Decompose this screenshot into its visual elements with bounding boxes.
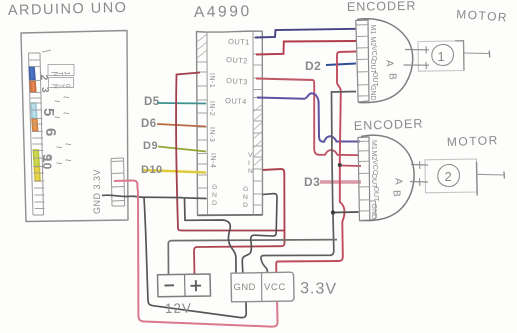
battery minus symbol — [165, 284, 175, 286]
svg-text:~: ~ — [56, 142, 62, 154]
svg-text:A: A — [384, 60, 395, 67]
svg-text:MOTOR: MOTOR — [447, 133, 499, 149]
INT-1 boxed label at pin 2 — [48, 65, 74, 76]
svg-text:1: 1 — [438, 49, 445, 64]
pin 2 highlight (blue) — [29, 67, 35, 80]
encoder 2 pin strip — [358, 137, 370, 221]
encoder1 pin label GND — [369, 85, 376, 101]
svg-text:OUT3: OUT3 — [226, 76, 248, 86]
wire battery + to VIN (red) — [194, 243, 285, 275]
svg-text:IN-3: IN-3 — [208, 127, 215, 142]
svg-text:N: N — [248, 168, 253, 175]
encoder1 pin label OUT B — [371, 72, 378, 88]
motor1 shaft wire — [464, 52, 490, 55]
junction node at GND tap — [331, 210, 335, 214]
pin label VIN (stacked) — [248, 152, 253, 175]
svg-text:D5: D5 — [144, 96, 160, 108]
svg-text:N: N — [212, 192, 217, 199]
motor driver U2 A4990 outline — [197, 31, 263, 215]
svg-text:M1: M1 — [370, 140, 377, 150]
svg-text:D: D — [212, 200, 217, 207]
A4990 left pin ticks — [197, 62, 208, 199]
pin label GND left (stacked) — [212, 184, 217, 207]
A4990 right pin ticks — [253, 38, 263, 206]
svg-text:M1: M1 — [369, 25, 376, 35]
svg-text:IN-1: IN-1 — [208, 73, 215, 88]
svg-text:VCC: VCC — [264, 282, 286, 293]
svg-text:OUT: OUT — [372, 187, 379, 203]
pin 5 highlight (light blue) — [31, 103, 37, 118]
svg-text:2: 2 — [445, 169, 452, 184]
pin label IN-3 (rotated) — [208, 127, 215, 142]
svg-text:D2: D2 — [305, 59, 321, 73]
encoder1 pin label OUT A — [369, 59, 376, 75]
wire OUT2 to encoder1 M2 (red) — [256, 41, 356, 55]
encoder2 pin label OUT B — [372, 187, 379, 203]
svg-text:GND: GND — [234, 282, 256, 293]
wire GND bus (grey): encoder1 GND down past encoder2 to connector — [332, 92, 357, 211]
wire chip GND-left branch down to S-curve into GND connector — [185, 198, 237, 273]
svg-text:IN-4: IN-4 — [209, 153, 216, 168]
GND/VCC connector box — [231, 272, 294, 302]
svg-text:D3: D3 — [304, 175, 320, 189]
svg-text:G: G — [243, 186, 248, 193]
A4990 right pin strip inner line — [252, 32, 254, 216]
encoder2 pin label OUT A — [370, 174, 377, 190]
wire chip GND-right pin down-left S-curve into GND connector (black) — [242, 194, 277, 273]
wire OUT3 to encoder2 M2 (red/pink) with hop — [256, 79, 359, 156]
wire battery - up and right to GND bus (grey) — [168, 240, 337, 275]
encoder 1 pin strip — [356, 20, 369, 102]
svg-text:OUT1: OUT1 — [228, 37, 250, 47]
svg-text:B: B — [391, 190, 402, 197]
wire Arduino 3.3V down bottom loop into VCC connector (pink-red) — [114, 180, 278, 326]
svg-text:~: ~ — [65, 139, 71, 151]
svg-text:12V: 12V — [165, 301, 192, 316]
wire Arduino GND branch down to bottom loop into GND connector — [144, 198, 246, 318]
encoder 1 body (D-shape) — [357, 19, 413, 103]
wire D3 to encoder2 OUT A (thick pink) — [320, 180, 361, 184]
svg-text:ENCODER: ENCODER — [347, 0, 417, 14]
pin 3 highlight (orange) — [30, 81, 36, 92]
wires encoder1 to motor1 — [405, 49, 429, 51]
svg-text:~: ~ — [63, 108, 69, 120]
left header pin ticks — [29, 60, 45, 209]
motor 1 circle with 1 — [432, 44, 454, 65]
pin 9 highlight (yellow-green) — [33, 150, 39, 166]
svg-text:D10: D10 — [141, 164, 163, 176]
svg-text:6: 6 — [42, 128, 59, 136]
svg-text:D6: D6 — [141, 118, 157, 130]
svg-text:~: ~ — [65, 155, 71, 167]
svg-text:~: ~ — [54, 96, 60, 108]
motor 2 circle with 2 — [438, 164, 460, 186]
motor 2 box — [425, 159, 477, 193]
svg-text:M2: M2 — [369, 37, 376, 47]
svg-text:D: D — [243, 202, 248, 209]
A4990 left pin strip inner line — [206, 33, 209, 216]
wire VCC bus (red): encoder1 VCC down past encoder2 to VCC connector — [276, 52, 356, 273]
Arduino bottom power header strip — [111, 158, 125, 206]
svg-text:B: B — [387, 73, 398, 80]
pin label GND right (stacked) — [243, 186, 248, 209]
Arduino left pin header strip — [29, 53, 44, 215]
encoder1 pin label M2 — [369, 37, 376, 47]
wire encoder2 GND tap from bus — [333, 211, 359, 214]
svg-text:A4990: A4990 — [194, 3, 252, 21]
wire D5 to IN-1 — [157, 102, 206, 105]
hatch marks right strip unused pins — [253, 104, 262, 166]
wire encoder2 VCC tap from bus — [340, 165, 361, 168]
svg-text:M2: M2 — [370, 151, 377, 161]
pin 10 digit label — [40, 156, 54, 170]
svg-text:D9: D9 — [143, 140, 158, 152]
battery 12V box — [158, 274, 211, 297]
svg-text:G: G — [212, 184, 217, 191]
encoder2 pin label M1 — [370, 140, 377, 150]
svg-text:V: V — [248, 152, 253, 159]
wire OUT1 to encoder1 M1 (navy) — [255, 29, 356, 38]
pin label IN-4 (rotated) — [209, 153, 216, 168]
encoder 2 body (D-shape) — [361, 135, 415, 220]
hatch marks left strip top — [197, 34, 207, 58]
svg-text:GND: GND — [370, 204, 377, 220]
svg-text:~: ~ — [63, 92, 69, 104]
encoder1 pin label M1 — [369, 25, 376, 35]
wire Arduino GND to chip GND-left pin (black) — [102, 195, 183, 197]
PWM tilde marks — [54, 92, 71, 170]
svg-text:I: I — [248, 160, 250, 167]
wire dark red loop from chip top-left pin down and around to VIN column — [176, 73, 283, 231]
svg-text:N: N — [243, 194, 248, 201]
encoder1 pin label VCC — [370, 46, 377, 61]
junction node at VCC tap — [338, 163, 342, 167]
pin 10 highlight (yellow) — [34, 167, 40, 181]
svg-text:10: 10 — [40, 156, 54, 170]
svg-text:~: ~ — [56, 158, 62, 170]
wire D2 to encoder1 OUT A — [326, 64, 356, 66]
svg-text:3.3V: 3.3V — [300, 280, 337, 298]
svg-text:~: ~ — [54, 112, 60, 124]
pin label IN-2 (rotated) — [208, 101, 215, 116]
pin 6 highlight (orange) — [32, 119, 38, 131]
svg-text:IN-2: IN-2 — [208, 101, 215, 116]
wire OUT4 to encoder2 M1 (purple) with hops — [257, 93, 360, 141]
wire D6 to IN-2 — [157, 124, 206, 127]
motor2 shaft wire — [477, 173, 505, 176]
Arduino UNO board U1 outline — [21, 31, 128, 222]
wire VIN red: chip VIN pin right and down to battery+ line — [263, 169, 285, 243]
svg-text:GND 3.3V: GND 3.3V — [92, 169, 102, 214]
INT-0 boxed label at pin 3 — [49, 78, 74, 88]
svg-text:ENCODER: ENCODER — [354, 117, 424, 133]
svg-text:OUT4: OUT4 — [225, 96, 247, 106]
svg-text:A: A — [393, 178, 404, 185]
encoder2 pin label VCC — [371, 160, 378, 175]
svg-text:ARDUINO UNO: ARDUINO UNO — [8, 0, 128, 19]
svg-text:GND: GND — [369, 85, 376, 101]
motor 1 box — [418, 41, 464, 71]
wire D10 to IN-4 (yellow) — [142, 170, 206, 173]
wire D9 to IN-3 — [158, 147, 206, 152]
encoder2 pin label M2 — [370, 151, 377, 161]
svg-text:OUT2: OUT2 — [226, 55, 248, 65]
wires encoder2 to motor2 — [411, 164, 428, 167]
battery plus symbol — [191, 280, 202, 291]
encoder2 pin label GND — [370, 204, 377, 220]
pin label IN-1 (rotated) — [208, 73, 215, 88]
